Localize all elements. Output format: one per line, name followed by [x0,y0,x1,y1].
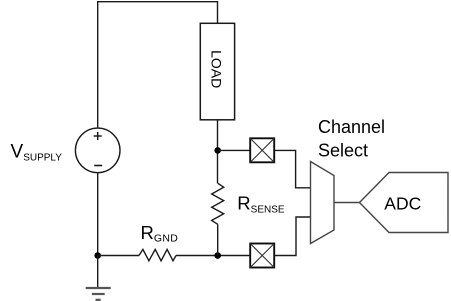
mux (channel select) trapezoid [311,162,335,244]
node junction left (ground node) [94,252,101,259]
svg-text:Select: Select [318,140,368,160]
switch S1 (crossed box, top) [250,138,274,162]
resistor R_GND zigzag [139,249,176,260]
resistor R_SENSE zigzag [212,183,224,224]
voltage source V_SUPPLY circle [75,128,120,173]
wire top rail from supply to load [98,2,218,129]
svg-text:LOAD: LOAD [208,50,224,88]
svg-text:Channel: Channel [318,117,385,137]
wire source bottom to ground rail [97,173,99,256]
wire mux output to ADC [334,202,360,204]
LOAD box [200,23,234,120]
wire switch S2 to mux input B [274,217,310,256]
plus symbol [94,132,102,140]
ADC block (pentagon) [360,173,449,233]
wire sense node to top switch [218,149,250,151]
node junction sense (top) [214,147,221,154]
node junction bottom of R_SENSE [214,252,221,259]
wire switch S1 to mux input A [274,150,310,187]
wire ground rail left segment [98,255,139,257]
wire ground rail right segment to switch [176,255,250,257]
wire R_SENSE bottom lead [217,224,219,255]
switch S2 (crossed box, bottom) [250,244,274,268]
svg-text:ADC: ADC [384,193,421,213]
wire load bottom to sense node [217,120,219,183]
minus symbol [94,165,102,167]
ground [86,256,111,300]
